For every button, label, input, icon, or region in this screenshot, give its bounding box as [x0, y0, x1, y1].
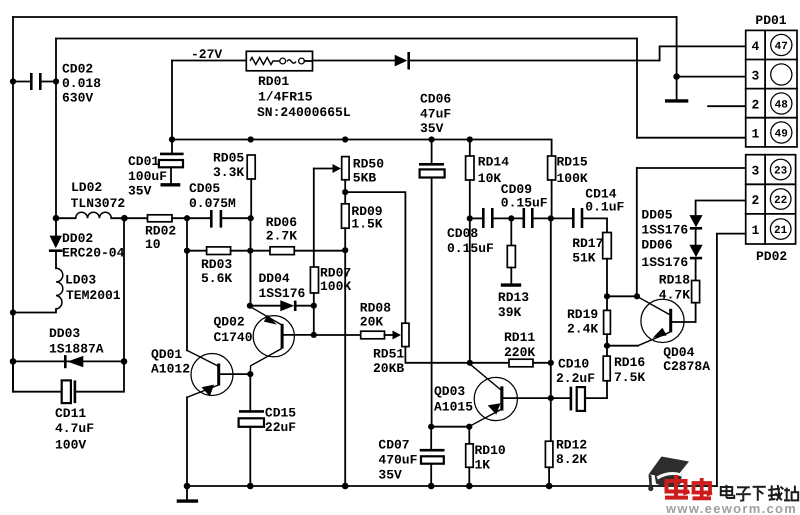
svg-text:CD06: CD06	[420, 92, 451, 107]
watermark graduation cap	[648, 457, 689, 492]
resistor RD18	[659, 273, 700, 303]
svg-text:PD01: PD01	[755, 13, 786, 28]
wire RD07 bottom to DD04 node	[313, 293, 315, 335]
svg-text:QD04: QD04	[663, 345, 694, 360]
wire RD08 row	[314, 334, 361, 336]
wire RD02 to CD05	[172, 217, 210, 219]
wire QD04 emitter row	[607, 345, 638, 347]
svg-text:0.15uF: 0.15uF	[501, 196, 548, 211]
resistor RD19	[567, 307, 610, 337]
node dot bus CD07	[428, 483, 435, 490]
svg-text:TLN3072: TLN3072	[71, 196, 126, 211]
wire QD03 emitter row	[431, 426, 469, 428]
node dot bus RD10	[466, 483, 473, 490]
svg-text:2.2uF: 2.2uF	[556, 371, 595, 386]
node dot RD06 right	[342, 247, 348, 253]
wire top border to pin3	[676, 17, 678, 100]
resistor RD07	[310, 265, 351, 294]
svg-text:QD02: QD02	[214, 314, 245, 329]
svg-text:3: 3	[752, 69, 760, 84]
wire RD09 bottom long vertical to ground bus	[344, 228, 346, 486]
svg-text:LD03: LD03	[65, 273, 96, 288]
svg-text:220K: 220K	[504, 345, 535, 360]
wire LD02 right	[111, 217, 147, 219]
svg-text:CD11: CD11	[55, 406, 86, 421]
node dot QD02 collector RD07	[311, 332, 317, 338]
wire RD18 to QD04 collector	[695, 303, 697, 322]
node dot bus RD09	[342, 483, 349, 490]
svg-text:TEM2001: TEM2001	[66, 288, 121, 303]
capacitor CD09	[501, 182, 572, 228]
node dot QD03 collector RD12	[548, 395, 554, 401]
wire diode to PD01 pin4 riser	[409, 60, 659, 62]
capacitor CD15	[239, 374, 297, 486]
svg-text:CD08: CD08	[447, 226, 478, 241]
resistor RD14	[466, 140, 510, 187]
node dot DD04 right	[311, 303, 317, 309]
PD02 pin 23 circle	[770, 159, 791, 180]
transistor QD04	[637, 296, 710, 373]
svg-text:LD02: LD02	[71, 180, 102, 195]
resistor RD03	[201, 247, 232, 286]
svg-text:A1012: A1012	[151, 362, 190, 377]
wire CD05 right	[223, 217, 251, 219]
resistor RD13 with ground	[498, 218, 529, 319]
connector PD02	[746, 155, 796, 264]
svg-text:35V: 35V	[420, 121, 444, 136]
svg-text:RD05: RD05	[213, 151, 244, 166]
node dot CD08 left	[467, 215, 473, 221]
PD01 empty circle	[771, 64, 792, 85]
diode DD05	[641, 207, 702, 237]
svg-text:49: 49	[775, 129, 788, 141]
svg-text:1SS176: 1SS176	[641, 255, 688, 270]
wire RD50 wiper vertical	[313, 169, 315, 268]
node dot RD19 RD16 junction	[604, 343, 610, 349]
arrow RD51 wiper	[393, 331, 402, 340]
wire RD01 to diode	[313, 60, 395, 62]
svg-text:CD15: CD15	[265, 406, 296, 421]
capacitor CD05	[189, 181, 236, 228]
node dot QD03 emitter RD10	[466, 424, 472, 430]
svg-text:23: 23	[774, 166, 788, 178]
wire RD14 bottom to QD03 base node	[469, 180, 471, 363]
svg-text:1SS176: 1SS176	[259, 286, 306, 301]
svg-text:CD02: CD02	[62, 62, 93, 77]
node dot bus QD01	[184, 483, 191, 490]
svg-text:RD08: RD08	[360, 300, 391, 315]
ground symbol main	[177, 486, 198, 501]
wire CD06 bottom long vertical	[431, 178, 433, 427]
svg-text:35V: 35V	[128, 184, 152, 199]
svg-text:3: 3	[752, 164, 760, 179]
watermark site name glyphs	[721, 485, 798, 501]
potentiometer RD51	[373, 323, 409, 376]
svg-text:RD10: RD10	[475, 443, 506, 458]
wire inner top to pin1	[636, 39, 638, 138]
wire RD06 right lead	[294, 250, 345, 252]
wire -27V feed	[172, 60, 246, 62]
svg-text:1S1887A: 1S1887A	[49, 342, 104, 357]
wire QD04 collector	[672, 321, 695, 323]
svg-text:3.3K: 3.3K	[213, 165, 244, 180]
resistor RD15	[548, 155, 588, 186]
svg-text:2: 2	[752, 98, 760, 113]
node dot RD17 RD19 junction	[604, 293, 610, 299]
wire RD51 bottom to QD03 base node	[405, 347, 470, 363]
PD01 pin 49 circle	[771, 122, 792, 143]
wire pin3 horizontal	[677, 76, 746, 78]
svg-text:RD15: RD15	[557, 155, 588, 170]
svg-text:2: 2	[752, 193, 760, 208]
capacitor CD07	[378, 427, 444, 486]
svg-text:7.5K: 7.5K	[614, 370, 645, 385]
svg-text:100V: 100V	[55, 438, 86, 453]
PD02 pin 22 circle	[770, 189, 791, 210]
capacitor CD01	[128, 140, 184, 199]
svg-text:RD19: RD19	[567, 307, 598, 322]
fusible resistor RD01	[246, 51, 351, 120]
wire RD17 bottom	[606, 259, 608, 311]
svg-text:RD11: RD11	[504, 330, 535, 345]
wire RD50 bottom to RD51 top	[345, 192, 405, 323]
transistor QD01	[151, 347, 233, 397]
svg-text:2.4K: 2.4K	[567, 322, 598, 337]
svg-text:10K: 10K	[478, 171, 502, 186]
wire pin1 horizontal	[637, 137, 746, 139]
svg-text:100K: 100K	[557, 171, 588, 186]
resistor RD08	[360, 300, 391, 338]
node dot LD02 right	[121, 215, 128, 222]
wire -27V vertical	[171, 61, 173, 140]
node dot DD04 left	[247, 303, 253, 309]
potentiometer RD50	[314, 157, 384, 186]
svg-text:5KB: 5KB	[353, 171, 377, 186]
node dot bus RD14	[467, 136, 473, 142]
wire CD11 loop right	[76, 361, 124, 391]
svg-text:4.7K: 4.7K	[659, 288, 690, 303]
capacitor CD02	[13, 62, 101, 106]
svg-text:48: 48	[775, 100, 789, 112]
wire RD05 bottom	[250, 179, 252, 218]
capacitor CD08	[447, 208, 522, 256]
node dot CD02 left	[10, 78, 16, 84]
svg-text:A1015: A1015	[434, 400, 473, 415]
svg-text:ERC20-04: ERC20-04	[62, 246, 125, 261]
wire QD02 collector	[284, 334, 314, 336]
svg-text:630V: 630V	[62, 91, 93, 106]
resistor RD17	[572, 218, 611, 265]
wire RD03 right lead	[231, 250, 270, 252]
svg-text:DD04: DD04	[259, 271, 290, 286]
wire QD04 base row	[607, 295, 637, 297]
node dot CD05 right RD05 bottom	[248, 215, 254, 221]
svg-text:DD06: DD06	[641, 238, 672, 253]
resistor RD11	[504, 330, 535, 367]
node dot bus RD12	[546, 483, 553, 490]
svg-text:100K: 100K	[320, 279, 351, 294]
inductor LD03	[56, 268, 121, 309]
resistor RD02	[145, 215, 176, 252]
wire outer left border	[12, 17, 14, 392]
svg-text:PD02: PD02	[756, 249, 787, 264]
ground bus bottom	[187, 485, 717, 487]
resistor RD16	[603, 355, 645, 385]
inductor LD02	[71, 180, 126, 218]
diode DD02	[49, 231, 125, 261]
node dot LD02 left	[53, 215, 60, 222]
wire DD06 to RD18	[695, 259, 697, 281]
wire QD01 collector	[220, 373, 250, 375]
transistor QD03	[434, 364, 517, 426]
svg-text:RD14: RD14	[478, 155, 509, 170]
svg-text:QD01: QD01	[151, 347, 182, 362]
svg-text:470uF: 470uF	[378, 452, 417, 467]
svg-text:C2878A: C2878A	[663, 359, 710, 374]
svg-text:RD01: RD01	[258, 74, 289, 89]
PD02 pin 21 circle	[770, 219, 791, 240]
node dot QD01 collector	[247, 371, 253, 377]
node dot RD11 left	[467, 360, 473, 366]
resistor RD06	[266, 215, 297, 255]
wire DD05 to DD06	[695, 229, 697, 245]
wire inner left vertical upper	[55, 39, 57, 236]
svg-text:1SS176: 1SS176	[641, 223, 688, 238]
node dot bus CD15	[247, 483, 254, 490]
svg-text:1.5K: 1.5K	[351, 217, 382, 232]
top bus -27V rail	[172, 140, 552, 157]
resistor RD12	[545, 438, 587, 487]
svg-text:21: 21	[774, 225, 788, 237]
svg-text:47uF: 47uF	[420, 107, 451, 122]
svg-text:www.eeworm.com: www.eeworm.com	[665, 501, 797, 515]
node dot RD03 RD06 junction	[247, 248, 253, 254]
node dot bus RD05	[248, 136, 254, 142]
svg-text:RD50: RD50	[353, 157, 384, 172]
capacitor CD11	[55, 380, 94, 452]
wire RD15 bottom vertical long	[550, 180, 553, 441]
svg-text:RD03: RD03	[201, 257, 232, 272]
svg-text:22uF: 22uF	[265, 420, 296, 435]
wire RD08 to RD51 arrow	[385, 334, 394, 336]
svg-text:0.075M: 0.075M	[189, 196, 236, 211]
svg-text:RD13: RD13	[498, 290, 529, 305]
svg-text:39K: 39K	[498, 305, 522, 320]
ground bar near PD01	[665, 99, 688, 102]
node dot QD04 base	[634, 293, 640, 299]
node dot CD02 right	[53, 78, 59, 84]
node dot bus CD01	[169, 136, 175, 142]
svg-text:SN:24000665L: SN:24000665L	[257, 105, 351, 120]
wire DD02 to LD03	[55, 251, 57, 269]
svg-text:0.1uF: 0.1uF	[585, 199, 624, 214]
node dot left border LD03	[10, 309, 16, 315]
svg-text:47: 47	[775, 41, 788, 53]
wire QD03 collector	[503, 397, 550, 399]
transistor QD02	[214, 307, 295, 375]
node dot RD11 right	[548, 360, 554, 366]
node dot bus RD50	[342, 136, 348, 142]
wire PD02 pin2 to DD05	[696, 201, 746, 216]
svg-text:CD01: CD01	[128, 154, 159, 169]
wire outer top border	[13, 16, 677, 18]
svg-text:35V: 35V	[378, 467, 402, 482]
svg-text:RD51: RD51	[373, 347, 404, 362]
resistor RD09	[342, 204, 383, 232]
node dot CD09 right RD15	[548, 215, 554, 221]
wire RD03 leads	[187, 250, 207, 252]
svg-text:10: 10	[145, 237, 161, 252]
wire DD03 row	[13, 360, 124, 362]
wire RD11 left lead	[470, 362, 509, 364]
node dot RD02 CD05 junction	[184, 215, 190, 221]
wire pin4 riser	[660, 46, 746, 60]
wire RD16 bottom to CD10	[586, 381, 607, 398]
PD01 pin 48 circle	[771, 93, 792, 114]
svg-text:1: 1	[752, 127, 760, 142]
node dot RD03 left	[184, 248, 190, 254]
diode DD06	[641, 238, 702, 270]
wire left row y218	[56, 217, 76, 219]
node dot DD03 right	[121, 358, 128, 365]
svg-text:0.018: 0.018	[62, 76, 101, 91]
node dot bus CD06	[429, 136, 435, 142]
svg-text:20KB: 20KB	[373, 361, 404, 376]
diode DD03	[49, 326, 104, 368]
node dot RD50 bottom	[342, 189, 348, 195]
svg-text:1/4FR15: 1/4FR15	[258, 90, 313, 105]
svg-text:0.15uF: 0.15uF	[447, 241, 494, 256]
svg-text:DD05: DD05	[641, 207, 672, 222]
resistor RD05	[213, 151, 255, 181]
PD01 pin 47 circle	[771, 34, 792, 55]
wire base row y250 left segment	[186, 218, 188, 350]
svg-text:4.7uF: 4.7uF	[55, 421, 94, 436]
wire PD02 pin1 down right side	[717, 234, 746, 486]
node dot CD08 right RD13	[508, 215, 514, 221]
node dot pin3 junction	[673, 73, 680, 80]
svg-text:CD05: CD05	[189, 181, 220, 196]
svg-text:20K: 20K	[360, 314, 384, 329]
wire RD05node down	[250, 218, 252, 306]
connector PD01	[746, 13, 797, 147]
diode DD04	[250, 271, 314, 311]
svg-text:5.6K: 5.6K	[201, 271, 232, 286]
svg-text:2.7K: 2.7K	[266, 229, 297, 244]
wire RD19 bottom	[606, 334, 608, 356]
wire RD50 bottom node	[344, 180, 346, 204]
diode top (unlabeled)	[395, 52, 409, 70]
svg-text:51K: 51K	[572, 250, 596, 265]
svg-text:1K: 1K	[475, 457, 491, 472]
wire PD02 pin3 horizontal	[637, 167, 746, 169]
svg-text:100uF: 100uF	[128, 169, 167, 184]
wire LD02-right vertical down to DD03	[123, 218, 125, 361]
svg-text:RD12: RD12	[556, 438, 587, 453]
svg-text:RD17: RD17	[572, 236, 603, 251]
resistor RD10	[466, 427, 506, 486]
svg-text:DD03: DD03	[49, 326, 80, 341]
wire inner top	[56, 38, 637, 40]
svg-text:C1740: C1740	[214, 330, 253, 345]
wire PD02 pin3 vertical to QD04 base node	[636, 168, 638, 296]
wire CD11 loop left	[13, 361, 60, 391]
node dot QD03 emitter row left	[428, 424, 434, 430]
svg-text:CD10: CD10	[558, 357, 589, 372]
svg-text:CD07: CD07	[378, 437, 409, 452]
svg-text:22: 22	[774, 195, 787, 207]
svg-text:QD03: QD03	[434, 384, 465, 399]
wire RD11 right lead	[533, 362, 551, 364]
capacitor CD10	[551, 357, 595, 411]
wire pin2 stub	[708, 105, 746, 107]
wire QD01 emitter to ground	[186, 397, 188, 486]
capacitor CD14	[573, 186, 624, 228]
watermark chongchong char2	[693, 478, 713, 500]
svg-text:4: 4	[752, 39, 760, 54]
svg-text:DD02: DD02	[62, 231, 93, 246]
svg-text:RD18: RD18	[659, 273, 690, 288]
svg-text:RD16: RD16	[614, 355, 645, 370]
svg-text:8.2K: 8.2K	[556, 452, 587, 467]
capacitor CD06	[419, 92, 451, 178]
wire LD03 bottom to left border	[13, 309, 56, 313]
svg-text:1: 1	[752, 223, 760, 238]
watermark chongchong char1	[665, 475, 690, 499]
node dot DD03 left	[10, 358, 17, 365]
